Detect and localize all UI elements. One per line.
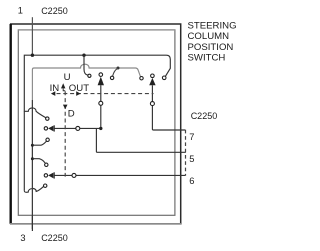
svg-text:C2250: C2250 xyxy=(41,233,68,243)
svg-text:STEERING: STEERING xyxy=(188,20,237,31)
svg-text:D: D xyxy=(68,108,75,119)
svg-text:IN: IN xyxy=(50,83,60,94)
svg-text:OUT: OUT xyxy=(69,83,89,94)
svg-text:3: 3 xyxy=(20,233,25,243)
svg-text:U: U xyxy=(64,72,71,83)
svg-text:POSITION: POSITION xyxy=(188,42,234,53)
svg-text:COLUMN: COLUMN xyxy=(188,31,230,42)
svg-text:C2250: C2250 xyxy=(41,6,68,16)
svg-text:C2250: C2250 xyxy=(191,111,218,121)
svg-text:6: 6 xyxy=(189,176,194,186)
svg-text:1: 1 xyxy=(18,6,23,16)
svg-text:5: 5 xyxy=(189,154,194,164)
svg-text:SWITCH: SWITCH xyxy=(188,53,226,64)
svg-text:7: 7 xyxy=(189,132,194,142)
